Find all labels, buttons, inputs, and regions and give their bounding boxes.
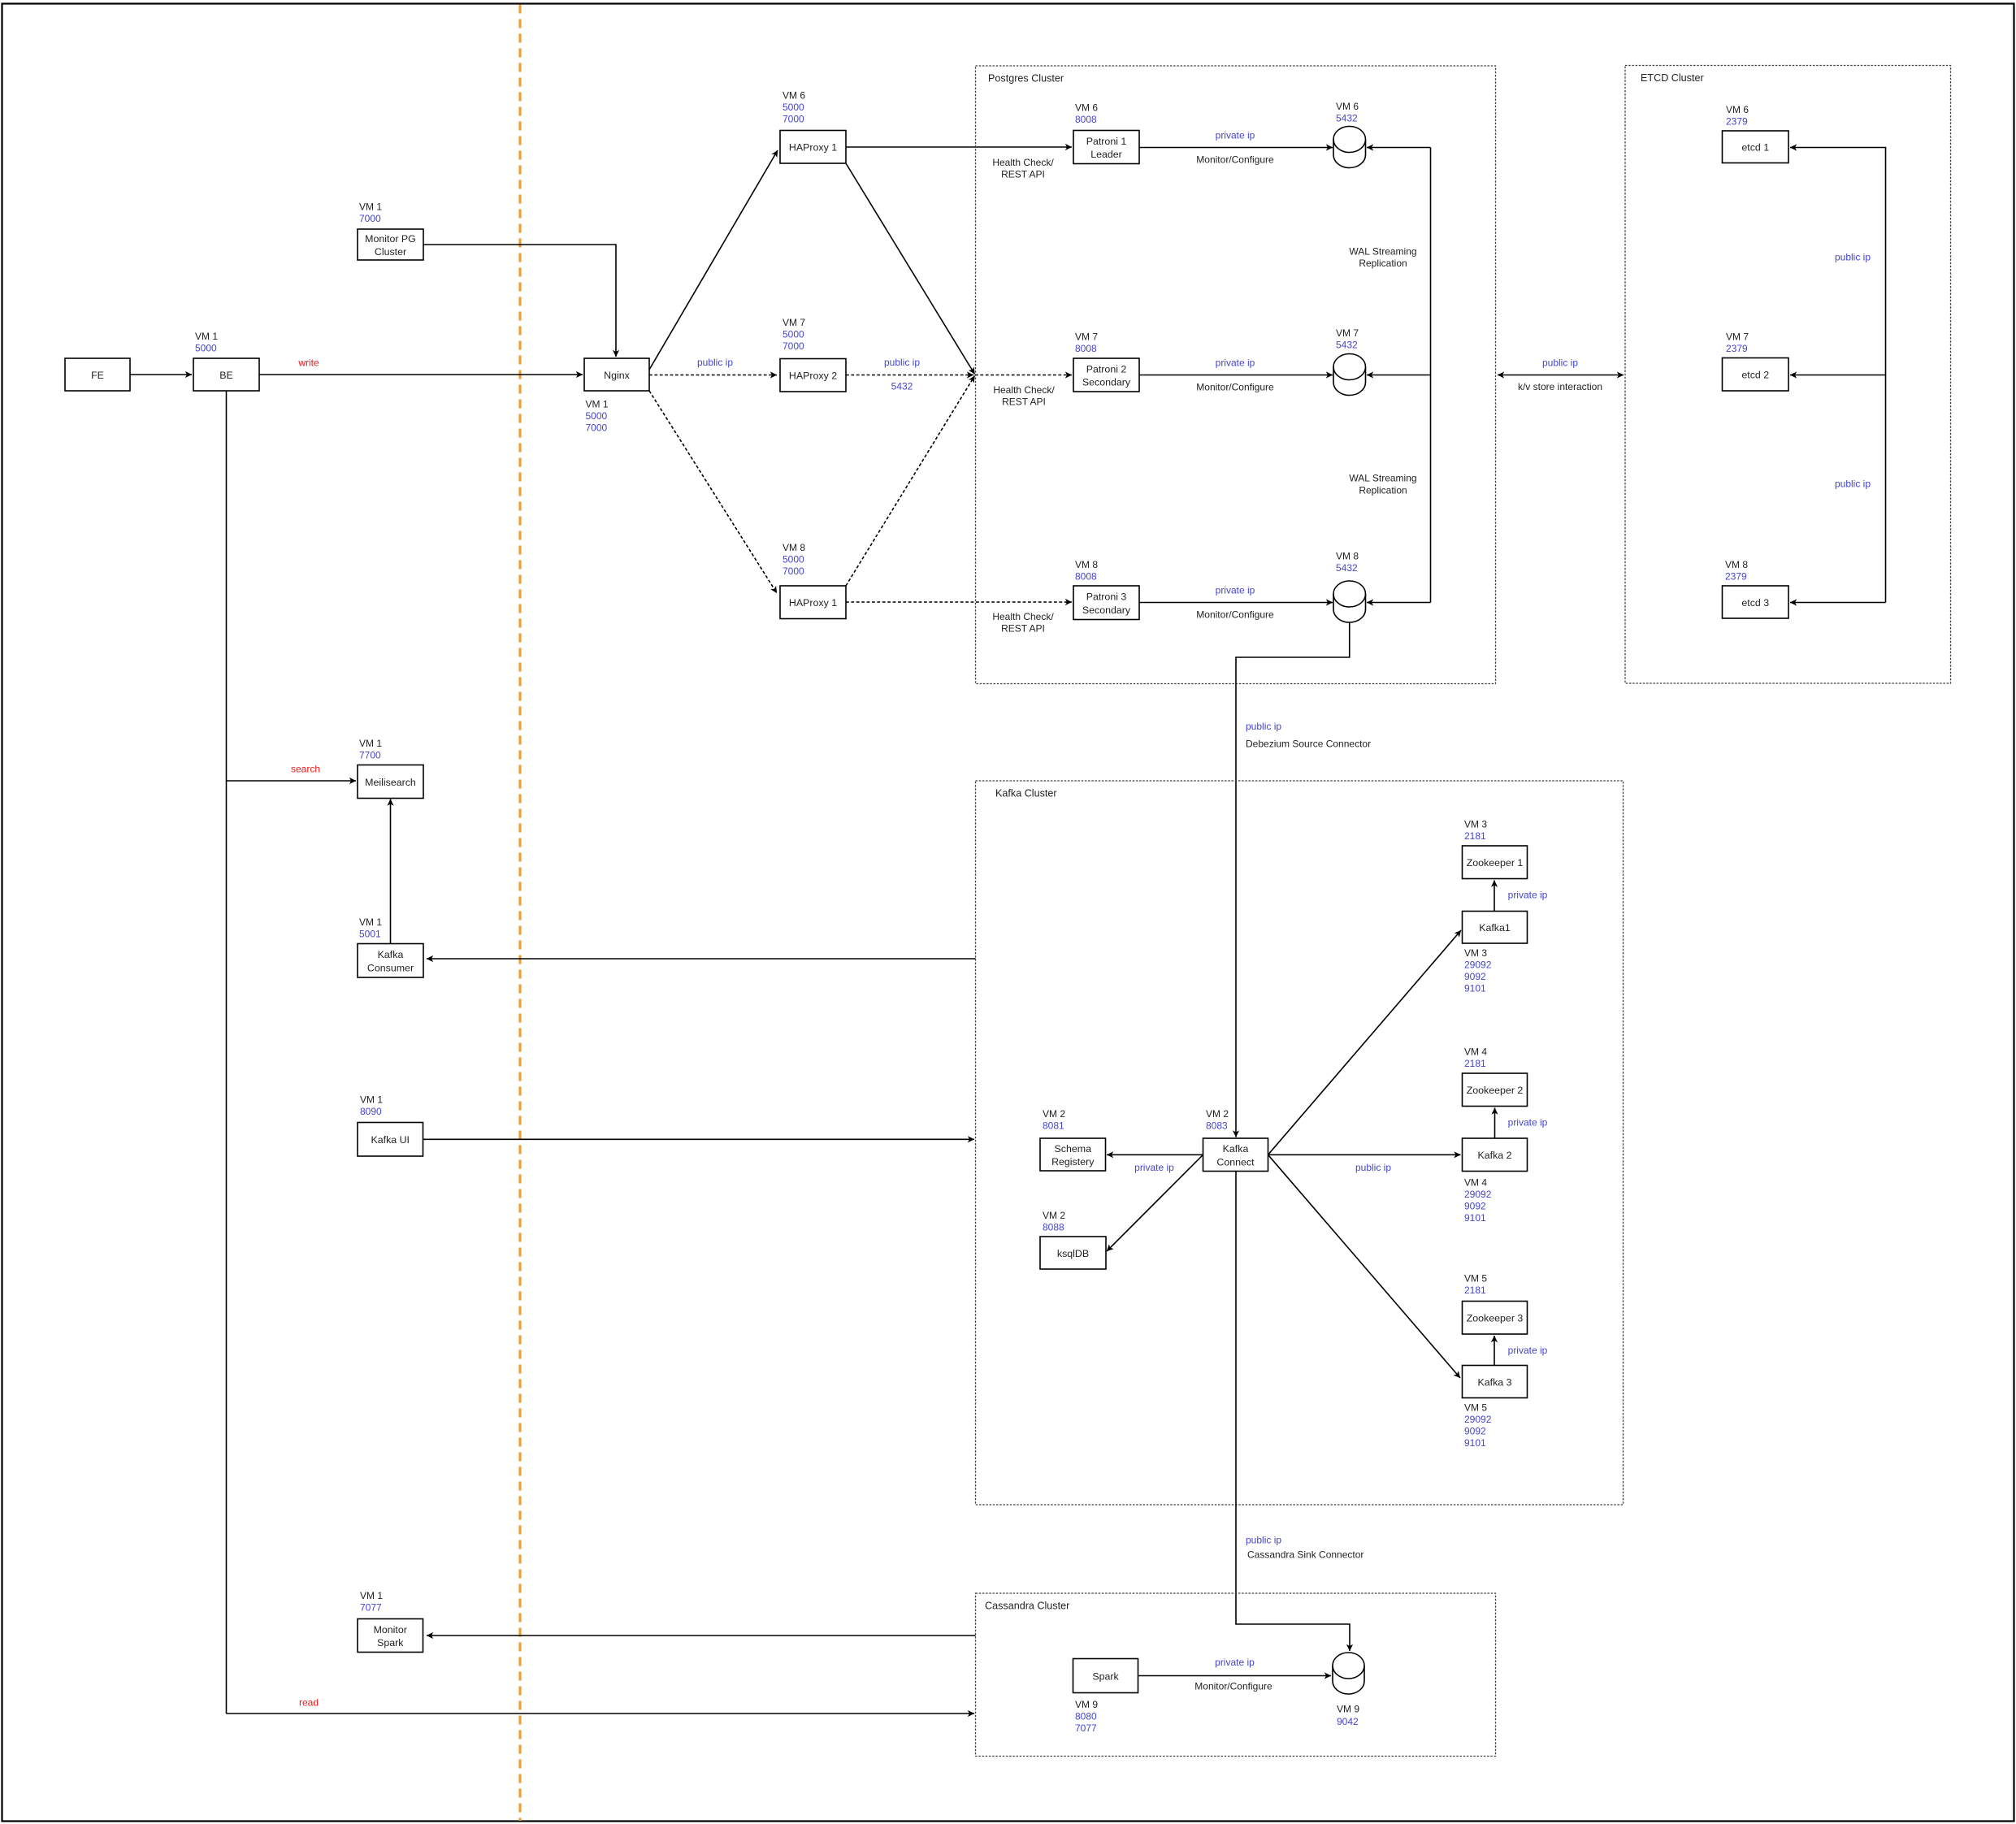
label VM 4 / 2181 above Zookeeper 2 <box>1464 1046 1487 1069</box>
svg-text:ksqlDB: ksqlDB <box>1057 1248 1089 1259</box>
svg-text:5432: 5432 <box>891 380 913 392</box>
svg-text:5000: 5000 <box>783 102 804 113</box>
wire HAProxy 1 bottom to convergence (dashed) <box>846 376 975 587</box>
svg-text:9092: 9092 <box>1464 1200 1486 1211</box>
box Patroni 1 Leader <box>1073 131 1139 164</box>
label VM 9 / 9042 below Cassandra database <box>1337 1703 1359 1727</box>
svg-text:Secondary: Secondary <box>1082 377 1131 388</box>
svg-text:5001: 5001 <box>359 928 381 939</box>
svg-text:7000: 7000 <box>359 213 381 224</box>
wire Nginx to HAProxy 1 top (solid) <box>649 150 778 370</box>
label k/v store interaction <box>1518 381 1602 392</box>
wire Spark to Cassandra database <box>1138 1675 1332 1677</box>
svg-text:VM 8: VM 8 <box>783 542 805 553</box>
svg-text:VM 1: VM 1 <box>360 1590 383 1601</box>
box Nginx <box>584 358 649 391</box>
svg-text:Consumer: Consumer <box>367 962 414 973</box>
wire BE to Meilisearch (search) <box>227 780 357 782</box>
box etcd 3 <box>1723 586 1789 618</box>
svg-text:5000: 5000 <box>783 553 804 565</box>
label public ip (Nginx-HAProxy2) <box>697 357 733 368</box>
svg-text:public ip: public ip <box>1542 357 1578 368</box>
label private ip row1 <box>1216 129 1255 141</box>
box HAProxy 1 (VM 6) <box>780 131 846 164</box>
svg-text:ETCD Cluster: ETCD Cluster <box>1641 72 1704 84</box>
svg-text:9092: 9092 <box>1464 971 1486 982</box>
label search (red) <box>291 763 320 774</box>
label VM 2 / 8083 above Kafka Connect <box>1206 1108 1229 1132</box>
label private ip (Zookeeper 2) <box>1508 1116 1548 1128</box>
svg-text:7077: 7077 <box>1075 1722 1097 1734</box>
wire Patroni 2 to PG database VM 7 <box>1139 375 1333 376</box>
svg-text:8008: 8008 <box>1075 343 1097 354</box>
wire WAL replication vertical bus <box>1430 148 1432 603</box>
database PG VM 8 (cylinder) <box>1333 581 1366 622</box>
box Patroni 3 Secondary <box>1073 586 1139 620</box>
wire k/v store interaction (double arrow) <box>1498 375 1624 376</box>
database PG VM 6 (cylinder) <box>1333 127 1366 168</box>
database PG VM 7 (cylinder) <box>1333 354 1366 396</box>
svg-text:Replication: Replication <box>1359 484 1407 496</box>
box Spark <box>1073 1659 1138 1693</box>
svg-text:29092: 29092 <box>1464 1189 1492 1200</box>
wire bus to cylinder VM7 <box>1367 375 1431 376</box>
svg-text:Cluster: Cluster <box>375 246 406 258</box>
svg-text:VM 3: VM 3 <box>1464 947 1487 959</box>
label VM 1 / 7700 above Meilisearch <box>359 738 382 761</box>
box ksqlDB <box>1040 1237 1106 1269</box>
svg-text:VM 3: VM 3 <box>1464 818 1487 830</box>
svg-text:private ip: private ip <box>1134 1162 1174 1173</box>
svg-text:2181: 2181 <box>1464 1285 1486 1296</box>
label VM 8 / 5432 above cylinder 3 <box>1336 550 1359 574</box>
wire Cassandra Sink Connector (Kafka Connect to Cassandra) <box>1236 1172 1350 1652</box>
svg-text:VM 8: VM 8 <box>1336 550 1359 561</box>
box HAProxy 1 (VM 8) <box>780 586 846 619</box>
label VM 4 ports below Kafka 2 <box>1464 1176 1492 1224</box>
svg-text:9042: 9042 <box>1337 1716 1359 1727</box>
svg-text:Monitor/Configure: Monitor/Configure <box>1196 154 1274 165</box>
svg-text:private ip: private ip <box>1508 1116 1548 1128</box>
label Monitor/Configure (Spark) <box>1194 1680 1272 1692</box>
svg-text:VM 9: VM 9 <box>1075 1699 1098 1710</box>
svg-text:7000: 7000 <box>783 340 804 352</box>
svg-text:private ip: private ip <box>1216 357 1255 368</box>
wire etcd bus to etcd 3 <box>1790 602 1886 604</box>
svg-text:9101: 9101 <box>1464 1437 1486 1449</box>
label VM 3 ports below Kafka1 <box>1464 947 1492 994</box>
svg-text:2379: 2379 <box>1726 115 1748 127</box>
svg-text:public ip: public ip <box>1835 478 1871 489</box>
wire Kafka1 to Zookeeper 1 <box>1494 881 1495 912</box>
svg-text:VM 6: VM 6 <box>783 89 805 101</box>
svg-text:VM 6: VM 6 <box>1075 102 1098 113</box>
label WAL Streaming Replication lower <box>1349 472 1416 496</box>
label VM 1 / 7077 above Monitor Spark <box>360 1590 383 1614</box>
label public ip (HAProxy2 east) <box>884 357 920 368</box>
wire Kafka Connect to Kafka 2 <box>1268 1154 1461 1155</box>
svg-text:5000: 5000 <box>195 342 217 353</box>
label VM 1 / 7000 above Monitor PG Cluster <box>359 201 382 224</box>
label VM 6 / 5000 / 7000 above HAProxy 1 <box>783 89 805 124</box>
wire Kafka Connect to ksqlDB (diagonal) <box>1107 1155 1203 1251</box>
wire HAProxy 1 to Patroni 1 <box>846 146 1072 148</box>
svg-text:9092: 9092 <box>1464 1425 1486 1436</box>
svg-text:VM 6: VM 6 <box>1726 104 1749 115</box>
svg-text:VM 1: VM 1 <box>359 916 382 928</box>
svg-text:7000: 7000 <box>783 113 804 124</box>
svg-text:VM 8: VM 8 <box>1725 559 1748 570</box>
svg-text:VM 7: VM 7 <box>1336 327 1359 339</box>
label private ip row3 <box>1216 584 1255 596</box>
svg-text:Monitor/Configure: Monitor/Configure <box>1194 1680 1272 1692</box>
svg-text:VM 1: VM 1 <box>360 1094 383 1105</box>
svg-text:Kafka1: Kafka1 <box>1479 922 1511 934</box>
svg-text:VM 9: VM 9 <box>1337 1703 1359 1714</box>
svg-text:VM 5: VM 5 <box>1464 1402 1487 1413</box>
wire BE to Cassandra Cluster (read) <box>227 1713 975 1714</box>
wire Kafka 3 to Zookeeper 3 <box>1494 1336 1495 1366</box>
wire Nginx to HAProxy 1 bottom (dashed) <box>649 391 777 593</box>
svg-text:etcd 1: etcd 1 <box>1741 142 1769 154</box>
node convergence point on Postgres Cluster border <box>0 0 1 1</box>
svg-text:Spark: Spark <box>377 1637 404 1649</box>
svg-text:Patroni 2: Patroni 2 <box>1086 363 1127 375</box>
label read (red) <box>299 1696 319 1708</box>
svg-text:9101: 9101 <box>1464 1212 1486 1224</box>
label private ip (Schema Registry) <box>1134 1162 1174 1173</box>
box Schema Registry <box>1040 1138 1106 1171</box>
wire etcd bus to etcd 1 <box>1790 148 1886 603</box>
wire Kafka 2 to Zookeeper 2 <box>1494 1108 1496 1139</box>
svg-text:7077: 7077 <box>360 1601 382 1613</box>
label VM 8 / 5000 / 7000 above HAProxy 1 bottom <box>783 542 805 577</box>
wire BE vertical trunk <box>226 391 228 1714</box>
label VM 8 / 8008 above Patroni 3 <box>1075 559 1098 583</box>
svg-text:private ip: private ip <box>1216 584 1255 596</box>
svg-text:Meilisearch: Meilisearch <box>365 777 416 788</box>
svg-text:VM 5: VM 5 <box>1464 1272 1487 1284</box>
label Monitor/Configure row3 <box>1196 609 1274 620</box>
svg-text:Registery: Registery <box>1051 1156 1095 1168</box>
svg-text:29092: 29092 <box>1464 959 1492 970</box>
wire Patroni 1 to PG database VM 6 <box>1139 147 1333 149</box>
label Debezium Source Connector <box>1246 738 1371 749</box>
label public ip etcd lower <box>1835 478 1871 489</box>
svg-text:Kafka 2: Kafka 2 <box>1477 1150 1511 1161</box>
svg-text:REST API: REST API <box>1002 396 1046 407</box>
svg-text:Zookeeper 1: Zookeeper 1 <box>1467 857 1524 869</box>
label VM 6 / 8008 above Patroni 1 <box>1075 102 1098 125</box>
svg-text:VM 2: VM 2 <box>1206 1108 1229 1120</box>
label VM 6 / 5432 above cylinder 1 <box>1336 101 1359 124</box>
box Kafka Consumer <box>358 944 423 978</box>
svg-text:29092: 29092 <box>1464 1414 1492 1425</box>
label private ip (Spark) <box>1215 1657 1255 1668</box>
label VM 7 / 5000 / 7000 above HAProxy 2 <box>783 317 805 352</box>
box FE (frontend) <box>65 358 130 391</box>
svg-text:Monitor/Configure: Monitor/Configure <box>1196 381 1274 392</box>
label VM 2 / 8081 above Schema Registry <box>1043 1108 1065 1132</box>
svg-text:VM 7: VM 7 <box>783 317 805 328</box>
svg-text:Kafka 3: Kafka 3 <box>1477 1376 1511 1388</box>
svg-text:public ip: public ip <box>884 357 920 368</box>
wire Kafka UI to Kafka Cluster <box>423 1138 975 1140</box>
label Monitor/Configure row1 <box>1196 154 1274 165</box>
wire Debezium Source Connector (PG VM8 to Kafka Connect) <box>1236 622 1350 1137</box>
svg-text:WAL Streaming: WAL Streaming <box>1349 472 1416 483</box>
svg-text:Kafka Cluster: Kafka Cluster <box>995 788 1057 799</box>
svg-text:VM 1: VM 1 <box>195 331 218 342</box>
svg-text:5000: 5000 <box>586 410 608 422</box>
svg-text:Nginx: Nginx <box>604 370 630 381</box>
svg-text:HAProxy 2: HAProxy 2 <box>789 370 837 382</box>
label VM 3 / 2181 above Zookeeper 1 <box>1464 818 1487 842</box>
svg-text:write: write <box>297 357 319 368</box>
svg-text:Secondary: Secondary <box>1082 604 1131 616</box>
svg-text:Schema: Schema <box>1055 1143 1092 1155</box>
box Patroni 2 Secondary <box>1073 358 1139 392</box>
wire Kafka Connect to Kafka1 (diagonal) <box>1268 930 1462 1155</box>
box Kafka Connect <box>1203 1138 1268 1172</box>
svg-text:Health Check/: Health Check/ <box>993 384 1055 396</box>
box etcd 2 <box>1723 358 1789 392</box>
wire HAProxy 1 to convergence point <box>846 163 975 375</box>
wire Kafka Cluster to Kafka Consumer <box>427 958 976 960</box>
svg-text:Cassandra Cluster: Cassandra Cluster <box>985 1601 1069 1612</box>
label public ip (Kafka 2) <box>1355 1162 1391 1173</box>
wire Kafka Connect to Kafka 3 (diagonal) <box>1268 1155 1461 1378</box>
label VM 1 / 5000 / 7000 below Nginx <box>586 398 609 433</box>
svg-text:8090: 8090 <box>360 1106 382 1117</box>
svg-text:2181: 2181 <box>1464 1058 1486 1069</box>
label VM 5 ports below Kafka 3 <box>1464 1402 1492 1449</box>
svg-text:private ip: private ip <box>1215 1657 1255 1668</box>
svg-text:5432: 5432 <box>1336 562 1358 574</box>
svg-text:public ip: public ip <box>1246 1534 1281 1545</box>
box BE (backend) <box>193 358 259 391</box>
label 5432 <box>891 380 913 392</box>
box Meilisearch <box>358 765 423 799</box>
svg-text:Patroni 3: Patroni 3 <box>1086 591 1127 603</box>
wire Monitor PG Cluster to Nginx <box>423 245 616 357</box>
label VM 6 / 2379 above etcd 1 <box>1726 104 1749 128</box>
group Postgres Cluster <box>976 66 1496 684</box>
svg-text:8008: 8008 <box>1075 114 1097 125</box>
svg-text:Kafka UI: Kafka UI <box>371 1134 410 1146</box>
svg-text:read: read <box>299 1696 319 1708</box>
group Cassandra Cluster <box>976 1593 1496 1757</box>
svg-text:Replication: Replication <box>1359 258 1407 269</box>
svg-text:WAL Streaming: WAL Streaming <box>1349 245 1416 257</box>
svg-text:Health Check/: Health Check/ <box>992 157 1054 168</box>
wire HAProxy 2 to convergence point (dashed) <box>846 375 973 376</box>
label public ip (k/v) <box>1542 357 1578 368</box>
svg-text:8081: 8081 <box>1043 1120 1064 1131</box>
svg-text:VM 1: VM 1 <box>359 201 382 212</box>
svg-text:Patroni 1: Patroni 1 <box>1086 136 1127 147</box>
label public ip (Debezium) <box>1246 721 1281 732</box>
svg-text:Spark: Spark <box>1092 1670 1119 1682</box>
wire Patroni 3 to PG database VM 8 <box>1139 602 1333 604</box>
svg-text:Zookeeper 3: Zookeeper 3 <box>1467 1313 1524 1324</box>
box Zookeeper 1 <box>1463 846 1528 879</box>
box Kafka 2 <box>1463 1138 1528 1172</box>
svg-text:Monitor/Configure: Monitor/Configure <box>1196 609 1274 620</box>
svg-text:2181: 2181 <box>1464 830 1486 842</box>
label private ip (Zookeeper 3) <box>1508 1345 1548 1356</box>
wire Cassandra Cluster to Monitor Spark <box>427 1635 976 1636</box>
label VM 7 / 2379 above etcd 2 <box>1726 331 1749 354</box>
wire Kafka Consumer to Meilisearch <box>390 799 392 944</box>
label private ip (Zookeeper 1) <box>1508 889 1548 900</box>
label Health Check/REST API row1 <box>992 157 1054 180</box>
svg-text:VM 8: VM 8 <box>1075 559 1098 570</box>
label Health Check/REST API row2 <box>993 384 1055 408</box>
wire HAProxy 1 bottom to Patroni 3 (dashed) <box>846 601 1072 603</box>
svg-text:VM 6: VM 6 <box>1336 101 1359 112</box>
svg-text:public ip: public ip <box>697 357 733 368</box>
svg-text:private ip: private ip <box>1508 889 1548 900</box>
svg-text:8088: 8088 <box>1043 1221 1064 1233</box>
svg-text:VM 4: VM 4 <box>1464 1046 1487 1057</box>
svg-text:Monitor PG: Monitor PG <box>365 233 416 245</box>
svg-text:etcd 3: etcd 3 <box>1741 597 1769 609</box>
svg-text:5000: 5000 <box>783 328 804 340</box>
svg-text:8080: 8080 <box>1075 1710 1097 1722</box>
svg-text:HAProxy 1: HAProxy 1 <box>789 142 837 154</box>
svg-text:REST API: REST API <box>1001 168 1045 180</box>
wire FE to BE <box>130 374 192 375</box>
svg-text:search: search <box>291 763 320 774</box>
svg-text:8008: 8008 <box>1075 570 1097 582</box>
label Cassandra Sink Connector <box>1247 1549 1364 1560</box>
svg-text:Leader: Leader <box>1090 149 1122 160</box>
label VM 1 / 8090 above Kafka UI <box>360 1094 383 1117</box>
svg-text:Health Check/: Health Check/ <box>992 611 1054 622</box>
database Cassandra VM 9 (cylinder) <box>1333 1653 1364 1694</box>
svg-text:Postgres Cluster: Postgres Cluster <box>988 73 1064 84</box>
svg-text:BE: BE <box>219 370 233 381</box>
svg-text:FE: FE <box>91 370 104 381</box>
svg-text:2379: 2379 <box>1726 343 1748 354</box>
label VM 8 / 2379 above etcd 3 <box>1725 559 1748 583</box>
box HAProxy 2 (VM 7) <box>780 359 846 392</box>
svg-text:etcd 2: etcd 2 <box>1741 370 1769 381</box>
label VM 9 / 8080 / 7077 below Spark <box>1075 1699 1098 1734</box>
box Monitor PG Cluster <box>358 229 423 260</box>
svg-text:7000: 7000 <box>783 565 804 577</box>
svg-text:5432: 5432 <box>1336 112 1358 123</box>
svg-text:Debezium Source Connector: Debezium Source Connector <box>1246 738 1371 749</box>
label VM 7 / 8008 above Patroni 2 <box>1075 331 1098 354</box>
label private ip row2 <box>1216 357 1255 368</box>
svg-text:VM 1: VM 1 <box>586 398 609 409</box>
label WAL Streaming Replication upper <box>1349 245 1416 269</box>
label VM 1 / 5001 above Kafka Consumer <box>359 916 382 940</box>
svg-text:public ip: public ip <box>1246 721 1281 732</box>
wire BE to Nginx (write) <box>259 374 583 375</box>
svg-text:Kafka: Kafka <box>378 949 404 960</box>
svg-text:2379: 2379 <box>1725 570 1747 582</box>
label public ip (Cassandra sink) <box>1246 1534 1281 1545</box>
svg-text:HAProxy 1: HAProxy 1 <box>789 597 837 609</box>
wire Nginx to HAProxy 2 (dashed) <box>649 375 777 376</box>
svg-text:public ip: public ip <box>1355 1162 1391 1173</box>
label VM 1 / 5000 above BE <box>195 331 218 354</box>
box Kafka UI <box>358 1123 423 1157</box>
group ETCD Cluster <box>1625 66 1951 684</box>
box Zookeeper 3 <box>1463 1302 1528 1335</box>
label VM 5 / 2181 above Zookeeper 3 <box>1464 1272 1487 1296</box>
svg-text:VM 7: VM 7 <box>1726 331 1749 342</box>
wire Kafka Connect to Schema Registry <box>1107 1154 1203 1155</box>
label VM 2 / 8088 above ksqlDB <box>1043 1210 1065 1233</box>
label Monitor/Configure row2 <box>1196 381 1274 392</box>
label Health Check/REST API row3 <box>992 611 1054 635</box>
svg-text:5432: 5432 <box>1336 339 1358 350</box>
label VM 7 / 5432 above cylinder 2 <box>1336 327 1359 351</box>
svg-text:private ip: private ip <box>1508 1345 1548 1356</box>
svg-text:8083: 8083 <box>1206 1120 1228 1131</box>
svg-text:Monitor: Monitor <box>374 1624 407 1636</box>
orange dashed separator line <box>518 5 521 1822</box>
svg-text:REST API: REST API <box>1001 622 1045 634</box>
svg-text:VM 7: VM 7 <box>1075 331 1098 342</box>
svg-text:VM 2: VM 2 <box>1043 1210 1065 1221</box>
label public ip etcd upper <box>1835 251 1871 262</box>
box Monitor Spark <box>358 1619 423 1653</box>
svg-text:7700: 7700 <box>359 749 381 760</box>
svg-text:Cassandra Sink Connector: Cassandra Sink Connector <box>1247 1549 1364 1560</box>
box Kafka 3 <box>1463 1366 1528 1398</box>
svg-text:k/v store interaction: k/v store interaction <box>1518 381 1602 392</box>
svg-text:Kafka: Kafka <box>1223 1143 1249 1155</box>
wire bus to cylinder VM8 <box>1367 602 1431 604</box>
svg-text:public ip: public ip <box>1835 251 1871 262</box>
svg-text:VM 4: VM 4 <box>1464 1176 1487 1188</box>
wire convergence to Patroni 2 (dashed) <box>975 375 1072 376</box>
svg-text:7000: 7000 <box>586 422 608 433</box>
svg-text:Zookeeper 2: Zookeeper 2 <box>1467 1085 1524 1096</box>
svg-text:9101: 9101 <box>1464 982 1486 994</box>
svg-text:VM 2: VM 2 <box>1043 1108 1065 1120</box>
wire etcd bus to etcd 2 <box>1790 375 1886 376</box>
svg-text:VM 1: VM 1 <box>359 738 382 749</box>
svg-text:Connect: Connect <box>1216 1156 1255 1168</box>
box etcd 1 <box>1723 131 1789 163</box>
label write (red) <box>297 357 319 368</box>
wire bus to cylinder VM6 <box>1367 147 1431 149</box>
box Zookeeper 2 <box>1463 1073 1528 1107</box>
svg-text:private ip: private ip <box>1216 129 1255 141</box>
box Kafka1 <box>1463 912 1528 944</box>
group Kafka Cluster <box>976 781 1624 1505</box>
